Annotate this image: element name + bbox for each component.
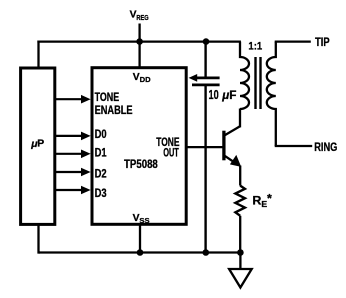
wire resistor to ground rail [239,216,241,253]
wire D0 input with arrow [56,132,91,141]
wire RING [275,145,313,147]
wire capacitor branch upper [204,42,206,77]
wire TONE ENABLE input with arrow [56,95,91,104]
svg-text:F: F [229,88,236,102]
pin label VSS [133,213,150,225]
svg-text:TP5088: TP5088 [124,157,158,171]
capacitor C1 10uF [189,74,220,85]
svg-text:OUT: OUT [163,146,179,159]
wire collector to transformer [239,109,241,128]
junction dot resistor ground [237,249,244,256]
wire VDD pin [138,42,140,68]
resistor RE [235,186,245,216]
svg-text:μ: μ [221,89,229,102]
svg-text:DD: DD [140,75,151,84]
svg-text:ENABLE: ENABLE [95,104,133,117]
pin label TONE OUT [156,136,180,159]
wire TIP [275,40,311,42]
value label RE* [252,191,272,208]
junction dot VDD rail [136,38,143,45]
wire ground stub [239,253,241,270]
node VREG [130,10,149,42]
secondary winding [267,42,276,146]
svg-text:*: * [267,191,272,205]
microprocessor uP block [21,68,55,224]
svg-text:RING: RING [314,140,337,154]
wire uP ground [39,225,41,253]
pin label TONE ENABLE [95,91,133,117]
svg-text:TONE: TONE [95,91,120,104]
svg-text:REG: REG [136,13,148,22]
junction dot VSS rail [137,249,144,256]
transformer T1 [240,41,276,147]
junction dot capacitor branch [203,38,210,45]
primary winding [240,42,249,109]
value label 10 uF [209,88,237,102]
svg-text:SS: SS [139,216,149,225]
svg-text:TIP: TIP [315,35,330,49]
wire uP supply [37,41,39,68]
transistor Q1 [224,126,241,167]
wire TONE OUT to base [188,146,224,148]
svg-text:10: 10 [209,88,219,102]
wire D1 input with arrow [56,150,91,159]
pin label VDD [133,72,151,84]
wire D3 input with arrow [56,186,91,195]
svg-text:R: R [252,193,261,207]
ground [229,269,252,288]
wire ground rail [39,251,241,253]
wire capacitor branch lower [204,86,206,253]
wire D2 input with arrow [56,168,91,177]
svg-text:D2: D2 [95,167,107,181]
IC U1 TP5088 block [92,68,186,225]
junction dot capacitor rail [203,249,210,256]
core bars [254,57,256,109]
wire emitter to resistor [239,166,241,186]
svg-text:P: P [37,139,44,150]
svg-text:1:1: 1:1 [248,41,262,53]
svg-text:D3: D3 [95,186,107,200]
wire VSS pin [139,225,141,253]
wire VREG power rail [37,40,241,42]
svg-text:D1: D1 [95,145,107,159]
svg-text:D0: D0 [95,127,107,141]
